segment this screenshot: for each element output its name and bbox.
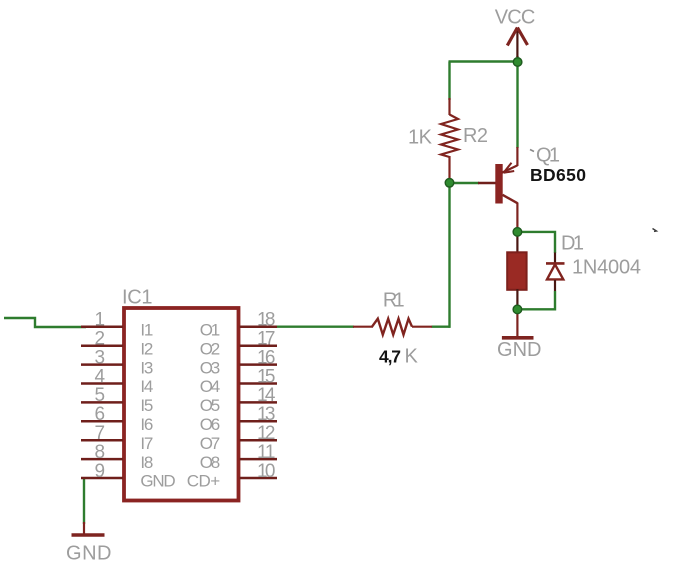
svg-text:11: 11 [257, 442, 276, 463]
svg-text:O3: O3 [200, 358, 220, 377]
svg-text:14: 14 [257, 385, 276, 406]
stray mark top right [653, 229, 657, 232]
svg-text:1N4004: 1N4004 [572, 257, 641, 279]
svg-text:3: 3 [95, 347, 106, 368]
pin 14 [240, 401, 278, 404]
svg-text:17: 17 [257, 329, 276, 350]
pin 18 [240, 326, 278, 329]
pin 13 [240, 420, 278, 423]
ground left [72, 522, 105, 535]
junction node collector [513, 228, 522, 237]
wire collector node to diode top [518, 232, 556, 253]
pin 15 [240, 382, 278, 385]
svg-text:GND: GND [140, 472, 175, 491]
svg-text:CD+: CD+ [187, 472, 220, 491]
wire top of R2 [448, 62, 450, 101]
tick before Q1 [530, 150, 534, 152]
svg-text:13: 13 [257, 404, 276, 425]
junction node VCC [513, 58, 522, 67]
svg-text:IC1: IC1 [122, 287, 153, 309]
svg-text:O8: O8 [200, 453, 220, 472]
svg-text:O4: O4 [200, 377, 220, 396]
pin 9 [81, 477, 123, 480]
svg-text:O2: O2 [200, 339, 220, 358]
wire vertical R1 node to base node [448, 183, 450, 328]
ground right [502, 310, 534, 338]
pin 16 [240, 363, 278, 366]
pin 12 [240, 439, 278, 442]
svg-text:I8: I8 [140, 453, 153, 472]
svg-text:8: 8 [95, 442, 106, 463]
pin 17 [240, 344, 278, 347]
junction node base [445, 179, 454, 188]
load (relay coil) [507, 231, 526, 310]
svg-text:D1: D1 [561, 232, 584, 254]
pin 8 [81, 458, 123, 461]
svg-text:5: 5 [95, 385, 106, 406]
svg-text:I7: I7 [140, 434, 153, 453]
svg-text:O6: O6 [200, 415, 220, 434]
wire entry to pin 1 [4, 318, 86, 327]
svg-text:GND: GND [497, 339, 542, 361]
svg-text:I3: I3 [140, 358, 153, 377]
wire top horizontal to VCC node [449, 60, 518, 62]
wire VCC node down to emitter [516, 56, 518, 148]
wire base node to Q1 base [450, 182, 480, 184]
svg-text:BD650: BD650 [530, 165, 586, 185]
junction node load bottom [513, 305, 522, 314]
svg-text:1: 1 [95, 310, 106, 331]
svg-text:16: 16 [257, 347, 276, 368]
svg-text:10: 10 [257, 461, 276, 482]
transistor Q1 [478, 147, 517, 232]
svg-text:18: 18 [257, 310, 276, 331]
svg-text:GND: GND [66, 543, 112, 565]
svg-text:7: 7 [95, 423, 106, 444]
svg-text:O5: O5 [200, 396, 220, 415]
svg-text:O1: O1 [200, 321, 220, 340]
wire pin9 to GND [83, 478, 85, 524]
svg-text:I6: I6 [140, 415, 153, 434]
svg-text:6: 6 [95, 404, 106, 425]
pin 3 [81, 363, 123, 366]
svg-text:R2: R2 [463, 125, 488, 147]
resistor R1 [353, 319, 432, 335]
svg-text:12: 12 [257, 423, 276, 444]
pin 5 [81, 401, 123, 404]
svg-text:1K: 1K [408, 127, 433, 149]
pin 6 [81, 420, 123, 423]
svg-text:R1: R1 [383, 290, 405, 312]
svg-text:I4: I4 [140, 377, 153, 396]
pin 4 [81, 382, 123, 385]
wire diode bottom to lower node [518, 291, 556, 309]
VCC symbol [507, 28, 527, 58]
IC1 body [124, 308, 239, 501]
svg-text:15: 15 [257, 366, 276, 387]
svg-text:I1: I1 [140, 321, 153, 340]
svg-text:Q1: Q1 [536, 144, 560, 166]
wire R1 to vertical node [432, 326, 451, 328]
svg-text:O7: O7 [200, 434, 220, 453]
svg-text:K: K [405, 346, 419, 368]
pin 11 [240, 458, 278, 461]
svg-text:4,7: 4,7 [379, 347, 401, 367]
svg-text:9: 9 [95, 461, 106, 482]
pin 1 [81, 326, 123, 329]
resistor R2 [441, 98, 458, 181]
svg-text:2: 2 [95, 329, 106, 350]
pin 10 [240, 477, 278, 480]
pin 2 [81, 344, 123, 347]
svg-text:4: 4 [95, 366, 106, 387]
svg-text:VCC: VCC [495, 7, 536, 29]
svg-text:I2: I2 [140, 339, 153, 358]
wire pin18 to R1 [277, 326, 354, 328]
svg-text:I5: I5 [140, 396, 153, 415]
pin 7 [81, 439, 123, 442]
diode D1 [546, 253, 565, 292]
